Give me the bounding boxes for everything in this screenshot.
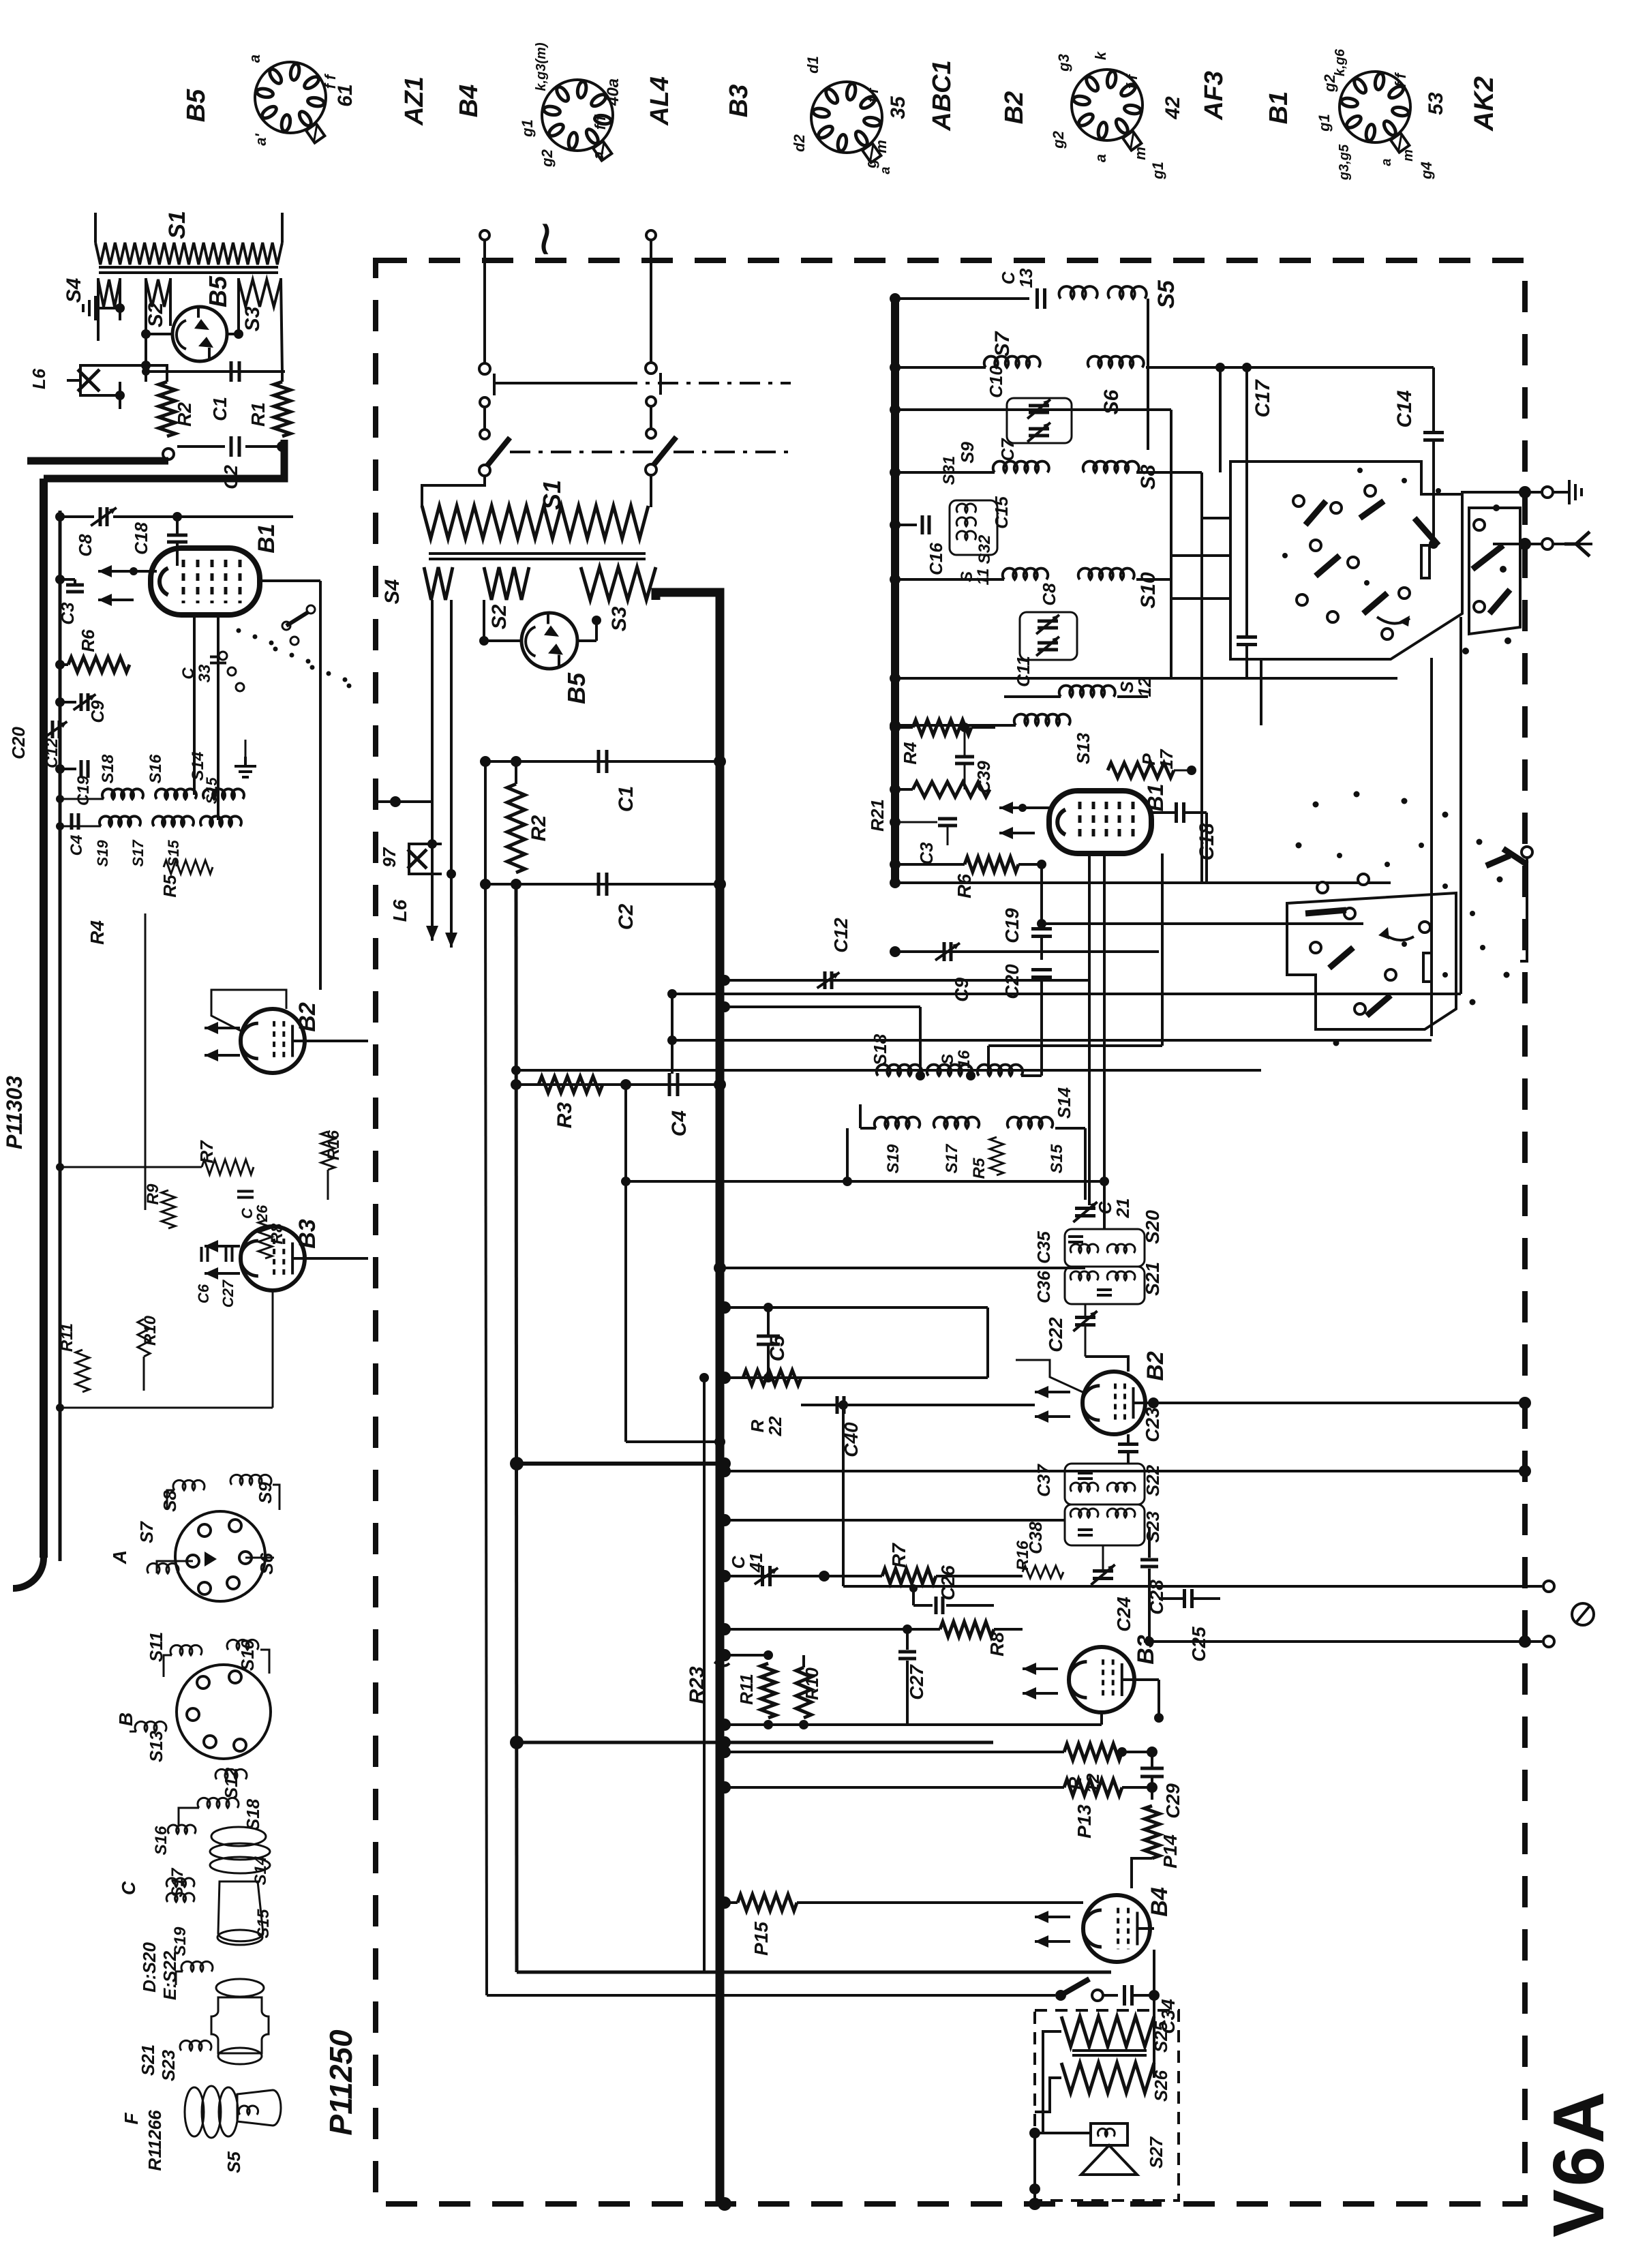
winding S3 label <box>241 306 264 331</box>
heater arrow B3L a <box>205 1240 240 1252</box>
svg-text:S18: S18 <box>243 1798 263 1830</box>
coupling winding S4 label <box>63 277 85 303</box>
cap C28 <box>1140 1527 1158 1646</box>
asm1 stub c <box>1171 597 1230 600</box>
unit C coil S17 <box>166 1878 194 1887</box>
capacitor C13 <box>1038 288 1045 309</box>
svg-text:B: B <box>115 1712 136 1726</box>
thin shield rect <box>487 1994 1055 1997</box>
label C29 <box>1162 1783 1183 1819</box>
pin label m (socket 35) <box>873 140 890 153</box>
label C26 <box>937 1565 958 1601</box>
unit C body <box>210 1827 270 1945</box>
label C7 <box>997 438 1018 462</box>
svg-text:C35: C35 <box>1033 1231 1054 1264</box>
label C37 <box>1033 1464 1054 1497</box>
mains contact R4 <box>646 464 656 475</box>
socket B coil S11 <box>164 1645 202 1677</box>
svg-text:S16: S16 <box>147 754 165 783</box>
svg-text:AL4: AL4 <box>646 76 674 126</box>
svg-text:R2: R2 <box>174 402 195 427</box>
IF1 box upper S20 <box>1065 1229 1145 1267</box>
thick HT bus from S3 <box>656 592 720 2204</box>
resistor P17 <box>1108 763 1196 778</box>
label S7 <box>991 331 1014 357</box>
svg-text:P13: P13 <box>1074 1804 1095 1839</box>
socket A coil S7 <box>147 1563 179 1573</box>
unit C coil S16 <box>168 1825 196 1834</box>
asm1 down wire <box>1122 658 1261 725</box>
svg-text:R6: R6 <box>78 629 98 652</box>
pin label m (socket 42) <box>1132 147 1149 160</box>
label F <box>121 2113 142 2125</box>
label C8 <box>75 534 95 557</box>
heater arrow B3 a <box>1023 1663 1058 1675</box>
label R6 left <box>78 629 98 652</box>
wire speaker left <box>1035 2132 1091 2134</box>
rail P13 <box>718 1781 1064 1794</box>
tube label AL4 <box>646 76 674 126</box>
svg-text:B5: B5 <box>204 275 232 307</box>
cap C14 <box>1423 367 1444 549</box>
label C24 <box>1113 1597 1134 1632</box>
svg-text:R16: R16 <box>324 1130 343 1160</box>
resistor R8 <box>940 1622 1023 1637</box>
svg-text:R4: R4 <box>87 920 108 945</box>
earth terminal <box>1525 480 1582 504</box>
pin labels f f (socket 35) <box>864 87 881 102</box>
mains switch blade R <box>653 437 676 466</box>
label C12 left <box>43 738 61 768</box>
triode B2 left <box>241 1009 305 1073</box>
thick rail 2147 <box>510 1457 731 1470</box>
svg-text:40a: 40a <box>604 78 622 106</box>
pin label g (socket 35) <box>862 159 879 169</box>
svg-text:S8: S8 <box>160 1490 180 1512</box>
cap C19 rf <box>1031 929 1052 961</box>
label R16 <box>1014 1540 1032 1571</box>
label C25 <box>1188 1627 1209 1662</box>
tube socket base diagram for B1 (53) <box>1340 72 1410 153</box>
mains linkage L <box>494 374 617 395</box>
svg-text:P11303: P11303 <box>2 1076 27 1149</box>
label B5 top-left <box>204 275 232 307</box>
label C9 left <box>87 700 108 723</box>
coil S18 rf <box>877 1065 922 1076</box>
svg-text:f f: f f <box>864 87 881 102</box>
label S14 <box>252 1856 270 1886</box>
label S21 <box>1142 1262 1163 1296</box>
svg-text:C2: C2 <box>615 904 637 931</box>
cap C27 left <box>226 1247 232 1262</box>
vertical link 2100 <box>1430 658 1433 1036</box>
antenna coil S1 label <box>164 211 190 239</box>
label R8 <box>986 1632 1008 1657</box>
fan ground <box>235 740 256 777</box>
svg-text:S12: S12 <box>221 1767 241 1799</box>
fan switch arm <box>286 605 315 626</box>
label R2 power <box>528 815 550 842</box>
cap C25 <box>1159 1589 1220 1608</box>
svg-text:C19: C19 <box>74 775 93 806</box>
coil S16 left <box>155 789 196 799</box>
label R10 left <box>141 1315 160 1346</box>
heater arrow B3L b <box>205 1267 240 1280</box>
label C 21 <box>1095 1198 1133 1219</box>
resistor R5 rf <box>990 1137 1003 1175</box>
wire S12 <box>1004 695 1148 698</box>
cap C41 <box>755 1566 778 1586</box>
label S17 <box>168 1867 187 1897</box>
label R5 left <box>160 875 180 898</box>
speaker coil box <box>1091 2123 1128 2145</box>
svg-text:17: 17 <box>1156 749 1177 769</box>
resistor R2 power <box>507 761 525 873</box>
svg-text:C19: C19 <box>1001 908 1023 943</box>
svg-text:S23: S23 <box>1143 1511 1163 1543</box>
wire B1 cathode down a <box>193 615 196 795</box>
wire L6 to S2 wire <box>109 361 151 409</box>
svg-text:R7: R7 <box>888 1543 909 1568</box>
junction heater L <box>376 796 432 807</box>
pin labels f f (socket 40a) <box>592 114 609 130</box>
svg-text:C20: C20 <box>8 727 29 759</box>
HT winding S3 <box>581 567 656 600</box>
svg-text:B1: B1 <box>1143 784 1168 812</box>
rectifier winding S2 <box>484 567 529 600</box>
svg-text:R10: R10 <box>802 1667 822 1700</box>
output secondary S26 <box>1061 2063 1154 2093</box>
socket A stray wires <box>157 1558 274 1573</box>
svg-text:B1: B1 <box>1265 91 1293 125</box>
svg-text:k: k <box>1092 50 1109 60</box>
wire B1 rf screen down <box>1088 853 1091 1205</box>
fan contacts <box>219 622 299 691</box>
cap C34 <box>1125 1985 1132 2006</box>
index dots near switch 2 <box>1296 791 1510 1046</box>
resistor R6 rf <box>890 857 1046 872</box>
label S19 <box>171 1926 190 1956</box>
junction R1 C2 <box>277 441 288 452</box>
svg-text:R2: R2 <box>528 815 550 842</box>
label R7 left <box>196 1140 217 1164</box>
pickup rail lower <box>1145 1635 1542 1648</box>
label R8 left <box>268 1223 286 1244</box>
svg-text:S19: S19 <box>884 1144 903 1173</box>
label C19 rf <box>1001 908 1023 943</box>
wire 986 verticals <box>667 989 677 1074</box>
label C4 left <box>67 835 86 856</box>
IF2 box upper S22 <box>1065 1464 1145 1505</box>
label C18 rf <box>1196 823 1218 860</box>
pickup terminal upper <box>1543 1581 1554 1592</box>
svg-text:R5: R5 <box>160 875 180 898</box>
svg-text:R1: R1 <box>247 402 269 427</box>
wire S5 to down <box>1147 299 1149 450</box>
svg-text:L6: L6 <box>389 899 410 922</box>
svg-text:S9: S9 <box>957 442 978 464</box>
label S5 <box>1153 279 1179 309</box>
resistor R21 <box>890 782 990 797</box>
label C4 <box>668 1110 691 1137</box>
label C19 left <box>74 775 93 806</box>
svg-text:S11: S11 <box>146 1632 166 1662</box>
wire P14 to B4 grid <box>1132 1858 1152 1888</box>
rail 1477 <box>719 1001 920 1070</box>
socket B circle <box>177 1665 271 1759</box>
label C27 <box>906 1664 927 1700</box>
wire B1 rf anode down <box>988 853 1162 1070</box>
svg-text:C27: C27 <box>906 1664 927 1700</box>
mains marker 2 <box>511 222 579 258</box>
L6 dial lamp symbol <box>408 844 442 874</box>
svg-text:C36: C36 <box>1033 1271 1054 1303</box>
open terminal at thick wire <box>163 449 174 459</box>
svg-text:11: 11 <box>974 569 993 586</box>
label S16 <box>152 1826 170 1855</box>
svg-text:R6: R6 <box>954 874 975 898</box>
svg-text:B1: B1 <box>254 524 279 553</box>
svg-text:C10: C10 <box>986 365 1006 398</box>
labels S18 S16 S14 <box>99 752 207 784</box>
rail 1396 <box>890 946 1159 957</box>
wire heater junction <box>130 567 157 575</box>
wire B4 anode down <box>1150 1927 1154 1930</box>
power transformer primary S1 <box>422 506 648 539</box>
svg-text:C15: C15 <box>991 496 1012 529</box>
vert 1237 <box>838 1400 848 1586</box>
label S26 <box>1151 2070 1171 2102</box>
dash-dot linkage lower <box>510 451 791 453</box>
rectifier B5 top-left <box>172 307 227 361</box>
label S21 S23 <box>138 2044 179 2081</box>
wire 712 down 2 <box>485 884 487 1995</box>
wire S8 right <box>1136 471 1202 474</box>
svg-text:C37: C37 <box>1033 1464 1054 1497</box>
svg-text:g2: g2 <box>539 149 556 167</box>
svg-text:S: S <box>939 1054 957 1065</box>
label C2 power <box>615 904 637 931</box>
svg-text:C28: C28 <box>1146 1579 1167 1615</box>
svg-text:B5: B5 <box>562 672 590 704</box>
label 97 <box>379 847 410 922</box>
tube label B1 <box>1265 91 1293 125</box>
svg-text:L6: L6 <box>29 368 49 389</box>
label C3 rf <box>916 842 937 865</box>
resistor R16 rf <box>1023 1566 1063 1578</box>
trimmer C7 <box>1027 423 1050 442</box>
coil S17 rf <box>934 1117 979 1128</box>
label C3 left <box>57 602 78 625</box>
svg-text:S13: S13 <box>146 1730 166 1762</box>
capacitor C2 <box>177 436 282 457</box>
cap C8 small <box>1039 583 1059 606</box>
resistor R15 <box>738 1894 797 1911</box>
speaker unit dashed box <box>1035 2010 1179 2201</box>
capacitor C3 left <box>55 575 84 592</box>
label P14 <box>1160 1834 1181 1869</box>
tube label B4 <box>455 85 483 118</box>
label R4 left <box>87 920 108 945</box>
svg-text:D:S20: D:S20 <box>139 1942 160 1993</box>
label B2 left <box>294 1002 320 1032</box>
svg-text:S5: S5 <box>224 2151 244 2173</box>
label R1 <box>247 402 269 427</box>
labels S18 S16 S14 rf <box>870 1033 1074 1119</box>
labels C6 C27 left <box>195 1279 237 1307</box>
label B5 power <box>562 672 590 704</box>
trimmer C10 <box>1027 399 1050 419</box>
svg-text:g4: g4 <box>1418 162 1435 180</box>
socket type label 42 <box>1162 96 1184 120</box>
rail 601 <box>890 404 1171 415</box>
heater arrow B1 b <box>98 594 134 606</box>
capacitor C2 power <box>599 873 607 896</box>
svg-text:g1: g1 <box>519 119 536 138</box>
pin label g2 (socket 53) <box>1321 74 1338 92</box>
pin label g2 (socket 42) <box>1050 130 1067 149</box>
socket A coil S9 <box>230 1475 279 1510</box>
dotted tuning fan <box>237 629 352 689</box>
trimmer C8b <box>1036 615 1059 634</box>
label C12 rf <box>830 918 851 953</box>
unit F coil <box>239 2106 258 2115</box>
svg-text:S14: S14 <box>252 1856 270 1886</box>
resistor R7 <box>882 1569 1023 1584</box>
thick shield rect <box>517 1971 1111 1974</box>
node junction C1 rail <box>142 367 285 376</box>
output primary S25 <box>1061 2016 1154 2046</box>
cap C40 <box>837 1396 844 1414</box>
wire S26 right down <box>1153 1995 1155 2078</box>
grid top cap wire B2 <box>1016 1360 1083 1392</box>
label S6 <box>1100 389 1123 414</box>
svg-text:S17: S17 <box>943 1143 961 1173</box>
pin label g2 (socket 40a) <box>539 149 556 167</box>
wave-change switch assembly 1 <box>1230 462 1520 659</box>
svg-text:R16: R16 <box>1014 1540 1032 1571</box>
svg-text:S4: S4 <box>63 277 85 303</box>
unit F body <box>185 2086 281 2138</box>
socket B pins <box>187 1671 246 1751</box>
tube label AK2 <box>1469 76 1499 132</box>
svg-text:13: 13 <box>1016 268 1036 288</box>
socket B coil S10 <box>227 1639 269 1674</box>
rail 2428 <box>718 1649 773 1661</box>
label R7 <box>888 1543 909 1568</box>
wire S25 left <box>1035 2031 1061 2133</box>
cap C5 <box>757 1303 780 1382</box>
rail 1438 <box>719 975 1089 986</box>
rail 1733 <box>621 1177 1109 1186</box>
wire B3 left anode right <box>305 1257 368 1260</box>
tube socket base diagram for B5 (61) <box>255 62 326 143</box>
label C11 <box>1013 656 1033 687</box>
rail C2 <box>480 878 726 890</box>
svg-text:S21: S21 <box>138 2044 158 2076</box>
label R4 rf <box>900 742 920 765</box>
svg-text:R9: R9 <box>144 1183 162 1205</box>
heater arrow B2L b <box>205 1049 240 1061</box>
cap C20 rf <box>1031 970 1052 1003</box>
pin label m (socket 53) <box>1401 149 1416 162</box>
svg-text:S10: S10 <box>237 1639 258 1671</box>
wire B2 anode right <box>1145 1397 1531 1409</box>
core of S1 <box>99 267 278 273</box>
pin label k,g6 (socket 53) <box>1333 48 1348 76</box>
label R23 <box>686 1662 729 1704</box>
wire C22 to B2 grid <box>1085 1357 1128 1372</box>
label B <box>115 1712 136 1726</box>
wire anode B1 down <box>1040 864 1043 924</box>
tube socket base diagram for B3 (35) <box>811 82 882 163</box>
rail 1295 to switch2 <box>890 877 1391 888</box>
coil S6 <box>1088 357 1144 367</box>
wave-change switch assembly 2 <box>1287 843 1532 1029</box>
svg-text:S3: S3 <box>608 606 631 631</box>
svg-text:ABC1: ABC1 <box>928 60 956 131</box>
svg-text:C3: C3 <box>916 842 937 865</box>
cap C27 <box>898 1624 916 1725</box>
pin label a (socket 40a) <box>590 151 607 160</box>
svg-text:g2: g2 <box>1321 74 1338 92</box>
capacitor C12 left <box>45 721 67 738</box>
pentode B1 envelope <box>151 548 260 615</box>
svg-text:m: m <box>1401 149 1416 162</box>
svg-text:C8: C8 <box>1039 583 1059 606</box>
svg-text:B5: B5 <box>182 89 211 122</box>
wire mains R to primary <box>650 474 652 507</box>
tube socket base diagram for B2 (42) <box>1072 70 1143 151</box>
heater arrow B3 b <box>1023 1687 1058 1699</box>
unit DE coil top <box>176 1961 213 1985</box>
tube label AZ1 <box>400 76 429 126</box>
label S15 <box>254 1909 273 1938</box>
heater arrow B1rf a <box>999 802 1035 814</box>
label B2 <box>1143 1351 1168 1381</box>
coil S5a <box>1059 286 1098 299</box>
rail 2230 <box>718 1514 1065 1526</box>
trimmer C24 <box>1091 1545 1115 1585</box>
resistor R3 <box>539 1076 603 1093</box>
label S23 <box>1143 1511 1163 1543</box>
svg-text:g1: g1 <box>1149 162 1166 180</box>
svg-text:35: 35 <box>887 95 909 119</box>
cap C16 <box>890 515 929 534</box>
label C2 <box>220 465 241 489</box>
dash-dot linkage upper <box>617 382 791 384</box>
unit C coil S18 <box>179 1798 239 1826</box>
label S9 S31 <box>940 442 978 485</box>
antenna coil S1 winding <box>95 243 282 264</box>
svg-text:C8: C8 <box>75 534 95 557</box>
heater arrow B2 b <box>1035 1410 1070 1423</box>
svg-text:S27: S27 <box>1146 2136 1166 2168</box>
svg-text:R5: R5 <box>970 1158 988 1179</box>
rail R3 <box>511 1078 726 1091</box>
svg-text:V6A: V6A <box>1539 2089 1619 2237</box>
svg-text:S2: S2 <box>145 302 167 327</box>
coil S15 left <box>200 816 241 826</box>
socket type label 35 <box>887 95 909 119</box>
svg-text:B4: B4 <box>1147 1887 1173 1917</box>
pin label g4 (socket 53) <box>1418 162 1435 180</box>
svg-text:C16: C16 <box>926 543 946 575</box>
svg-text:C3: C3 <box>57 602 78 625</box>
mains contact R1 <box>646 363 656 374</box>
svg-text:AK2: AK2 <box>1469 76 1499 132</box>
resistor R10 <box>796 1655 811 1718</box>
